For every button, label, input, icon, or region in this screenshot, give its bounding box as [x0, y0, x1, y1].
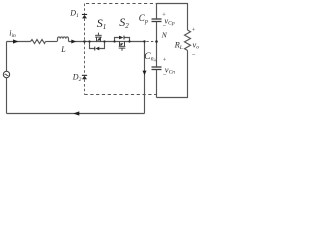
- svg-text:−: −: [191, 52, 195, 59]
- svg-text:−: −: [162, 72, 166, 79]
- svg-text:L: L: [60, 45, 66, 54]
- svg-text:RL: RL: [174, 39, 183, 51]
- svg-text:+: +: [162, 57, 166, 64]
- svg-text:vo: vo: [193, 39, 200, 50]
- svg-text:Cp: Cp: [139, 13, 148, 25]
- svg-text:S2: S2: [119, 15, 129, 30]
- svg-text:−: −: [162, 23, 166, 30]
- svg-text:+: +: [153, 57, 157, 64]
- svg-text:D1: D1: [69, 8, 79, 18]
- svg-text:+: +: [191, 27, 195, 34]
- svg-text:N: N: [161, 31, 168, 40]
- svg-text:iin: iin: [9, 28, 16, 39]
- svg-text:D2: D2: [72, 73, 82, 84]
- svg-text:S1: S1: [97, 16, 107, 31]
